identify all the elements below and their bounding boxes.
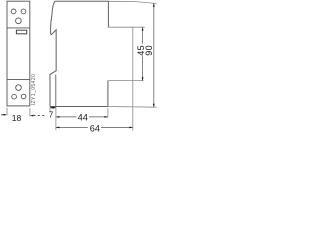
front view outline [7, 1, 30, 106]
top extension line [108, 1, 156, 3]
front view label window [16, 30, 26, 34]
arrow left of 44 [56, 116, 59, 118]
side view back lower edge [107, 81, 109, 107]
front view lower-middle circle [16, 85, 22, 91]
side view bottom edge [50, 105, 108, 107]
front view top-left circle [11, 9, 16, 14]
step extension line [108, 26, 144, 28]
front view upper-middle circle [16, 18, 22, 24]
side view front profile [50, 1, 56, 106]
shared depth extension line (64 right / 45 reference) [132, 27, 134, 130]
dimension 45 line upper segment [142, 27, 144, 44]
svg-text:7: 7 [49, 111, 53, 120]
front view seam line 1 [7, 27, 30, 29]
svg-text:44: 44 [78, 113, 88, 123]
front view seam line 2 [7, 79, 30, 81]
extension line below lip outer face [49, 107, 51, 112]
extension line below lip inner edge [55, 107, 57, 130]
arrow right of 44 [105, 116, 108, 118]
svg-text:18: 18 [12, 113, 22, 123]
arrow left of 64 [56, 126, 59, 128]
arrow left of 7 [50, 107, 53, 109]
dimension 18 left tail [1, 114, 4, 116]
dimension 90 vertical line [153, 3, 155, 107]
dimension 45 line lower segment [142, 56, 144, 80]
arrow right of 64 [129, 126, 132, 128]
extension line below front view right [29, 108, 31, 117]
arrow bottom of 90 [153, 104, 155, 107]
svg-text:90: 90 [144, 45, 154, 55]
arrow top of 90 [153, 3, 155, 6]
arrow right of 18 pointing left [30, 115, 33, 117]
arrow left of 18 pointing right [4, 114, 7, 116]
arrow top of 45 [142, 27, 144, 30]
extension line below back [107, 108, 109, 117]
arrow right of 7 [53, 107, 56, 109]
dimension 64 line [56, 126, 88, 128]
mid extension line (45 bottom) [108, 80, 143, 82]
dimension 44 line [56, 116, 77, 118]
front view bottom-left circle [12, 94, 17, 99]
bottom extension line [108, 106, 157, 109]
front view bottom-right circle [21, 94, 26, 99]
dashed link from 18 to 7 [33, 115, 45, 117]
extension line below front view left [6, 108, 8, 116]
dimension 7 line [50, 107, 56, 109]
side view top edge and back upper edge [55, 1, 109, 27]
svg-text:64: 64 [90, 123, 100, 133]
svg-text:IZY1_05420: IZY1_05420 [31, 74, 37, 106]
front view top-right circle [21, 9, 26, 14]
arrow bottom of 45 [142, 77, 144, 80]
side view inner lip edge [55, 75, 57, 107]
